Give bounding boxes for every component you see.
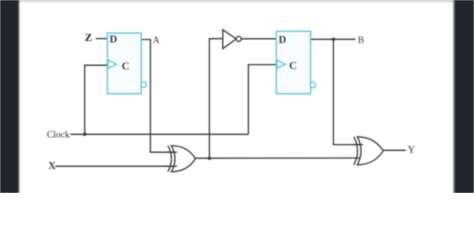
svg-text:Z: Z <box>85 32 92 44</box>
svg-text:C: C <box>122 61 130 72</box>
svg-text:D: D <box>110 35 118 46</box>
svg-text:B: B <box>358 36 364 46</box>
svg-text:A: A <box>153 36 160 46</box>
svg-text:Y: Y <box>408 145 416 156</box>
svg-text:D: D <box>279 35 287 46</box>
svg-text:X: X <box>48 161 56 172</box>
svg-text:Clock: Clock <box>47 130 70 140</box>
svg-text:C: C <box>289 61 297 72</box>
